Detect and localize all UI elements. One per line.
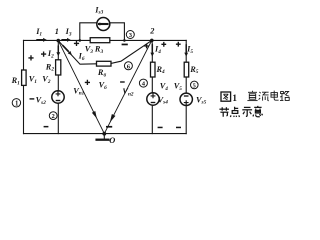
wire branch 6 polyline [58,41,151,65]
voltage source Vs2 [52,91,64,103]
arrowhead Vn2 [110,114,116,122]
caption line 1: 图1 直流电路 [221,91,289,105]
node 1 dot [57,39,61,43]
plus left of I4 [144,44,149,49]
svg-text:Vs4: Vs4 [158,95,169,105]
svg-text:Vn2: Vn2 [122,87,133,97]
svg-text:V3: V3 [85,45,94,55]
svg-text:O: O [109,136,115,145]
minus V1 bottom [30,98,35,99]
minus V4 bottom [158,127,163,129]
node 2 dot [150,39,154,43]
arrow I3 [61,38,70,42]
arrowhead Vn1 [92,111,97,119]
svg-text:Vn1: Vn1 [73,86,84,96]
minus V2 bottom [44,126,49,128]
arrow I2 [56,46,60,57]
plus V3 [74,41,79,46]
voltage source Vs5 [180,93,192,105]
char 直 [247,91,257,101]
svg-text:Vs2: Vs2 [36,96,47,106]
svg-text:V4: V4 [160,82,169,92]
circled 3 [126,31,134,40]
svg-text:I4: I4 [154,45,161,55]
minus V3 [122,44,128,46]
svg-text:V1: V1 [29,75,38,85]
circled 1 [12,99,20,108]
svg-text:I1: I1 [35,27,42,37]
svg-text:Vs5: Vs5 [196,95,207,105]
resistor R6 [97,61,112,66]
circled 2 [49,112,57,121]
svg-text:5: 5 [193,82,196,89]
resistor R3 [90,38,110,43]
char 路 [280,91,289,100]
svg-text:R6: R6 [97,68,107,78]
svg-text:R2: R2 [45,62,55,72]
char 示 [242,107,252,116]
wire left side [23,40,25,133]
plus right of I4 [161,42,166,47]
wire branch 2 vertical [57,41,59,134]
resistor R1 [22,38,189,86]
wire top: node area y=40.4 [24,39,187,41]
arrow I6 on branch-6 diagonal [63,45,72,55]
svg-text:1: 1 [55,27,59,36]
resistor R5 [184,62,189,77]
svg-text:I2: I2 [47,49,54,59]
svg-text:V5: V5 [174,82,183,92]
ground [103,134,105,139]
wire current-source loop [80,23,125,41]
resistor R2 [56,60,61,75]
wire node-voltage arrow Vn2 [104,41,151,134]
plus V2 [41,52,46,57]
svg-text:1: 1 [15,100,19,107]
junction loop-right [123,39,126,42]
minus V5 bottom [176,127,181,129]
char 意 [253,106,263,117]
plus V6 [85,80,90,85]
minus V6 [120,81,125,82]
circled 4 [139,79,147,88]
node O dot [102,132,106,136]
caption line 2: 节点示意 [219,106,262,117]
junction loop-left [79,39,82,42]
char 图 [221,92,231,101]
current source Is3 [97,18,110,31]
svg-text:V2: V2 [42,75,51,85]
circled 5 [191,81,199,89]
svg-text:2: 2 [149,27,154,36]
resistor R4 [151,62,156,77]
svg-text:R1: R1 [11,76,21,86]
svg-text:I5: I5 [186,45,193,55]
svg-text:1: 1 [232,93,237,104]
svg-text:R4: R4 [156,65,166,75]
voltage source Vs4 [147,93,159,105]
circled 6 [124,62,132,71]
svg-text:Is3: Is3 [94,5,103,15]
svg-text:I3: I3 [65,27,72,37]
char 点 [230,107,239,117]
arrow I5 [184,44,188,56]
wire node-voltage arrow Vn1 [58,41,104,134]
wire bottom [24,133,187,135]
char 流 [259,92,269,101]
plus V1 [28,55,33,60]
minus near O [106,126,112,128]
char 电 [271,91,279,101]
plus left of I5 [176,42,181,47]
wire branch 4 vertical [151,40,153,133]
arrow I4 [150,44,154,56]
wire right side (branch 5) [185,40,187,133]
svg-text:R5: R5 [189,65,199,75]
char 节 [219,107,229,117]
svg-text:V6: V6 [99,81,108,91]
svg-text:R3: R3 [94,44,104,54]
arrow I1 [36,38,47,42]
